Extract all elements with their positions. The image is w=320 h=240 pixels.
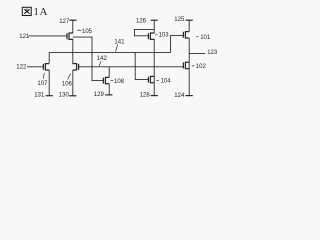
- svg-text:102: 102: [196, 64, 207, 70]
- wire: rail down to 107 drain: [48, 52, 50, 63]
- terminal 130: [69, 95, 76, 97]
- terminal 131: [46, 95, 53, 97]
- gate-drain loop of 103: [134, 29, 154, 35]
- wire: 108 source to terminal 129: [108, 84, 110, 95]
- figure title 図1A: [22, 7, 31, 15]
- transistor 101: [183, 32, 189, 38]
- terminal 126: [151, 19, 158, 21]
- svg-text:142: 142: [97, 56, 108, 62]
- wire: 103 source jog down to 104 drain and terminal 128: [153, 39, 155, 96]
- svg-text:123: 123: [207, 50, 218, 56]
- svg-text:106: 106: [62, 81, 73, 87]
- svg-text:131: 131: [34, 93, 45, 99]
- transistor 102: [183, 62, 189, 68]
- wire 142 (rail from 106 gate to 102 gate): [79, 66, 184, 68]
- transistor 103: [148, 33, 154, 39]
- terminal 129: [105, 94, 112, 96]
- wire: 127 down to transistor 105 drain: [72, 20, 74, 33]
- wire: 105 back-gate stub right then down to 108 gate: [73, 37, 103, 81]
- svg-text:124: 124: [174, 93, 185, 99]
- wire: 107 source to terminal 131: [48, 70, 50, 96]
- transistor 108: [103, 77, 109, 83]
- svg-text:103: 103: [159, 33, 170, 39]
- svg-text:108: 108: [114, 79, 125, 85]
- svg-text:127: 127: [59, 19, 70, 25]
- leader ~ for 102: [192, 65, 194, 68]
- svg-text:129: 129: [94, 92, 105, 98]
- terminal 128: [151, 95, 158, 97]
- transistor 107: [43, 64, 49, 70]
- transistor 104: [148, 76, 154, 82]
- leader tick for 123: [189, 52, 205, 54]
- svg-text:122: 122: [16, 65, 27, 71]
- svg-text:1A: 1A: [33, 6, 48, 18]
- leader for 106: [68, 74, 71, 80]
- svg-text:126: 126: [136, 19, 147, 25]
- wire: 125 down to transistor 101: [188, 20, 190, 31]
- transistor 106 (mirrored): [73, 64, 79, 70]
- svg-text:128: 128: [140, 92, 151, 98]
- leader for 107: [43, 73, 46, 79]
- leader dash for 108: [111, 79, 114, 81]
- wire: 108 drain up to rail 142: [108, 67, 110, 78]
- svg-text:141: 141: [114, 40, 125, 46]
- wire 121 to gate of 105: [29, 35, 68, 37]
- leader ~ for 104: [157, 79, 159, 82]
- leader ~ for 105: [77, 29, 81, 32]
- svg-text:121: 121: [19, 34, 30, 40]
- wire: 104 gate from rail 141: [135, 52, 148, 79]
- svg-text:101: 101: [200, 35, 211, 41]
- terminal 127: [69, 19, 76, 21]
- wire: 101 source down to 102 drain and terminal 124: [188, 38, 190, 96]
- terminal 125: [186, 19, 193, 21]
- svg-text:130: 130: [59, 93, 70, 99]
- leader for 142: [99, 61, 101, 66]
- leader ~ for 101: [196, 35, 198, 38]
- wire: 126 down to transistor 103: [153, 20, 155, 33]
- wire: 101 gate from rail 141: [171, 36, 184, 53]
- svg-text:104: 104: [161, 79, 172, 85]
- terminal 124: [186, 95, 193, 97]
- wire: 105 source down through rail to 106 drain and terminal 130: [72, 39, 74, 64]
- wire 122 to gate of 107: [27, 66, 43, 68]
- wire 141 (rail): [49, 51, 170, 53]
- leader ~ for 103: [155, 33, 157, 36]
- transistor 105: [67, 33, 73, 39]
- leader for 141: [116, 44, 118, 51]
- svg-text:107: 107: [37, 81, 48, 87]
- svg-text:105: 105: [82, 29, 93, 35]
- svg-text:125: 125: [174, 17, 185, 23]
